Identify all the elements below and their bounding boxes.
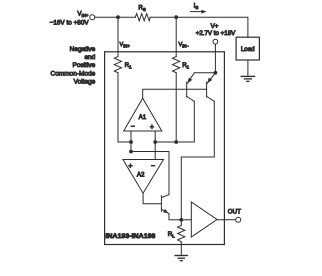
ground below RL — [175, 242, 187, 261]
svg-text:−: − — [151, 163, 155, 170]
label INA193-INA198 — [106, 233, 156, 240]
wire VIN+ from rail into box — [117, 17, 119, 56]
wire buffer output to OUT terminal — [217, 219, 236, 221]
label VIN+ pin — [120, 42, 131, 48]
svg-text:R1: R1 — [182, 62, 189, 69]
svg-text:Load: Load — [241, 46, 255, 53]
node A1+ input — [153, 140, 157, 144]
node output summing — [179, 218, 183, 222]
resistor R1 right — [173, 57, 190, 73]
node junction VIN- rail — [174, 15, 178, 19]
svg-text:VIN−: VIN− — [179, 42, 190, 48]
wire A1 noninverting stub — [154, 131, 156, 160]
annotation common-mode voltage — [51, 46, 96, 85]
wire emitters to V+ node — [194, 72, 215, 74]
transistor Q1 pnp left — [187, 73, 195, 101]
load box — [236, 37, 259, 60]
resistor RS — [135, 5, 150, 21]
wire node to buffer input — [181, 219, 191, 221]
op-amp A2 — [123, 160, 164, 194]
svg-text:+: + — [150, 124, 154, 131]
node A1- input — [129, 140, 133, 144]
node emitters V+ — [214, 71, 218, 75]
svg-text:+2.7V to +18V: +2.7V to +18V — [196, 30, 236, 37]
svg-text:V+: V+ — [211, 23, 219, 30]
resistor R1 left — [114, 57, 132, 73]
node A2+ junction — [129, 150, 133, 154]
svg-text:NegativeandPositiveCommon-Mode: NegativeandPositiveCommon-ModeVoltage — [51, 46, 96, 85]
buffer amplifier — [191, 202, 217, 237]
IC box INA193-INA198 — [105, 52, 225, 245]
wire R1 left down to A1 inverting input — [118, 73, 131, 142]
svg-text:−: − — [131, 124, 135, 131]
wire V+ down to emitter node — [214, 44, 216, 73]
svg-text:A2: A2 — [137, 171, 145, 178]
svg-text:IS: IS — [194, 2, 199, 9]
terminal OUT — [228, 208, 241, 222]
terminal VIN+ — [50, 11, 95, 27]
svg-text:RL: RL — [168, 231, 175, 238]
svg-text:A1: A1 — [139, 114, 147, 121]
transistor Q3 npn — [161, 195, 169, 220]
wire line B from A1+ to Q1 collector — [155, 101, 194, 142]
wire top rail from RS to load corner — [150, 17, 248, 37]
label VIN- pin — [179, 42, 190, 48]
terminal V+ — [196, 23, 236, 44]
svg-text:VIN+: VIN+ — [120, 42, 131, 48]
wire VIN- from rail into box — [175, 17, 177, 56]
wire line from A2+ node to Q3 collector — [131, 152, 169, 195]
wire A2 output to Q3 base — [143, 193, 161, 204]
svg-text:−16V to +80V: −16V to +80V — [50, 19, 90, 26]
svg-text:VIN+: VIN+ — [77, 11, 89, 18]
wire Q3 emitter to output node — [169, 219, 181, 221]
wire top rail from VIN+ terminal to RS — [95, 16, 135, 18]
node junction VIN+ rail — [116, 15, 120, 19]
svg-text:RS: RS — [138, 5, 145, 12]
svg-text:R1: R1 — [125, 62, 132, 69]
transistor Q2 pnp right — [207, 73, 216, 102]
wire A1 output up and right to PNP bases — [143, 89, 207, 98]
current arrow IS — [191, 2, 207, 13]
resistor RL — [168, 220, 185, 242]
op-amp A1 — [124, 98, 162, 131]
wire R1 right down to node line B — [175, 73, 177, 142]
svg-text:+: + — [128, 163, 132, 170]
wire Q2 collector down left and down to output node — [181, 101, 214, 218]
ground below load — [241, 60, 254, 81]
svg-text:INA193-INA198: INA193-INA198 — [106, 233, 156, 240]
node R1 right junction — [174, 140, 178, 144]
svg-text:OUT: OUT — [228, 208, 241, 215]
wire A1 inverting stub — [130, 131, 132, 152]
